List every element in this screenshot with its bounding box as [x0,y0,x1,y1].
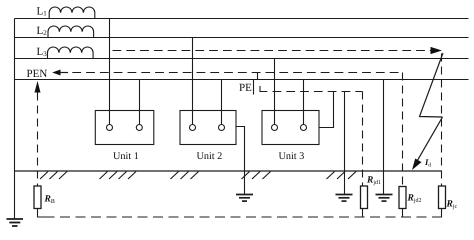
resistor R_jc [439,186,446,209]
fault lightning bolt [420,53,444,117]
wire transformer neutral vertical (left bus) [14,19,16,219]
arrow fault current I_d into earth [415,117,443,165]
inductor winding L2 [48,26,94,38]
wire PEN conductor line [15,79,469,81]
wire stub below R_B [38,209,45,218]
wire Unit2 phase drop from L2 [192,38,194,125]
wire dashed drop through R_jd2 [402,73,404,187]
wire Unit1 neutral drop from PEN [139,80,141,125]
wire unit2 case earthing conductor [236,127,245,195]
wire L1 phase line [15,18,469,20]
wire Unit1 phase drop from L1 [109,19,111,125]
wire dashed return path above PEN [72,72,402,74]
wire Unit3 phase drop from L3 [274,59,276,125]
wire dashed fault-current path on L3 [113,50,431,52]
label L1 [37,7,46,15]
wire dashed riser to R_B [37,93,39,187]
unit 2 enclosure box [180,111,236,145]
wire PE earthing electrode conductor [344,92,346,195]
ground transformer working earth (bottom left) [7,219,24,226]
arrow up into PEN from R_B path [35,81,41,93]
label L2 [37,27,47,35]
node PE branch stub from dashed return path to PEN [257,73,259,80]
wire unit3 case to PE conductor [319,92,334,128]
wire PEN repeated earthing conductor [383,80,385,195]
wire dashed drop through R_jd1 [362,92,364,187]
wire PE line dashed [273,91,363,93]
resistor R_jd2 [399,187,406,209]
label R_jd2 [407,194,421,203]
label PEN [27,70,47,77]
resistor R_B [34,186,41,209]
wire L3 phase line [15,58,469,60]
label R_jc [446,200,456,209]
ground PE earthing electrode [336,195,353,202]
arrow PEN return (pointing left) [52,70,60,76]
label Unit 3 [279,152,304,159]
label R_B [44,195,54,203]
unit 2 terminal circles [190,125,196,131]
unit 1 terminal circles [107,125,113,131]
label R_jd1 [367,176,381,185]
unit 1 enclosure box [95,111,154,145]
inductor winding L1 [49,7,95,19]
arrow fault path right (end of L3 dashed) [431,47,443,54]
label I_d [425,159,431,166]
hatching of earth bus [40,172,356,180]
inductor winding L3 [48,47,94,59]
unit 3 enclosure box [262,111,319,145]
resistor R_jd1 [361,186,368,209]
unit 3 terminal circles [272,125,278,131]
label Unit 1 [113,152,138,159]
ground PEN repeated earthing electrode [376,195,393,202]
earth bus line [15,170,443,172]
label PE [239,84,251,91]
wire dashed bottom reference earth line [45,216,435,218]
wire L2 phase line [15,37,469,39]
label L3 [37,48,47,56]
wire dashed drop through R_jc [441,54,443,187]
wire PE line start corner [260,86,267,92]
node PE label leader tick [253,80,255,95]
label Unit 2 [197,152,222,159]
ground unit2 case earth [236,195,253,202]
wire Unit2 neutral drop from PEN [221,80,223,125]
wire Unit3 neutral drop from PEN [303,80,305,125]
